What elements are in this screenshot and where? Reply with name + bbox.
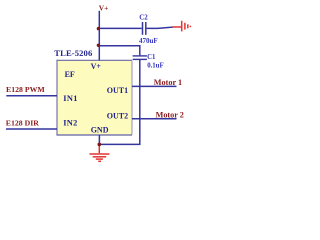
- svg-text:GND: GND: [91, 125, 109, 134]
- svg-text:E128 DIR: E128 DIR: [6, 118, 40, 127]
- svg-text:C2: C2: [139, 13, 148, 21]
- svg-text:Motor 1: Motor 1: [154, 78, 182, 87]
- svg-text:V+: V+: [91, 62, 102, 71]
- svg-text:OUT2: OUT2: [107, 112, 128, 121]
- svg-text:C1: C1: [147, 54, 156, 61]
- svg-text:E128 PWM: E128 PWM: [6, 85, 45, 94]
- svg-text:Motor 2: Motor 2: [156, 111, 184, 120]
- svg-text:IN2: IN2: [63, 119, 77, 128]
- svg-text:470uF: 470uF: [139, 37, 158, 45]
- svg-text:0.1uF: 0.1uF: [147, 63, 163, 70]
- svg-text:IN1: IN1: [63, 94, 77, 103]
- svg-text:OUT1: OUT1: [107, 86, 128, 95]
- svg-text:TLE-5206: TLE-5206: [54, 48, 93, 58]
- svg-text:EF: EF: [65, 70, 75, 79]
- svg-text:V+: V+: [99, 4, 109, 13]
